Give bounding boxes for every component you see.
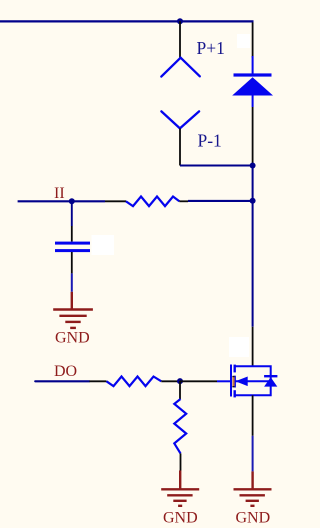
wire II to bus [188,200,253,202]
wire capacitor to ground [71,273,73,291]
connector symbol P+1 [161,58,200,77]
resistor R2 [107,377,162,387]
gate bar [230,365,232,397]
svg-text:P-1: P-1 [198,131,222,151]
capacitor C1 top lead [71,226,73,242]
wire DO left [35,380,89,382]
ground GND left [161,471,199,506]
junction dot top [177,18,183,24]
svg-text:DO: DO [54,363,77,380]
junction dot P-1 bus [250,163,256,169]
capacitor C1 bottom lead [71,252,73,273]
white patch above MOSFET [229,337,249,357]
resistor R3 bottom lead [180,453,182,470]
resistor R2 left lead [89,380,106,382]
body connection with arrow [235,380,271,382]
svg-text:GND: GND [163,510,198,527]
connector pin P-1 lead [179,128,181,165]
connector pin P+1 lead [179,21,181,57]
junction dot II bus [250,198,256,204]
wire MOSFET source down black [252,395,254,436]
channel top segment [233,365,235,373]
svg-text:GND: GND [55,329,90,346]
resistor R1 left lead [105,200,126,202]
junction dot II [69,198,75,204]
wire bus upper black segment [252,22,254,57]
wire gate [180,380,217,382]
wire II left [18,200,105,202]
wire bus navy segment [252,166,254,327]
ground GND right [234,471,272,505]
MOSFET Q1 [217,365,277,398]
resistor R3 top lead [179,381,181,399]
svg-text:GND: GND [236,510,271,527]
svg-text:II: II [54,185,65,202]
connector symbol P-1 [161,111,199,128]
resistor R1 [126,197,179,207]
junction dot DO [177,378,183,384]
capacitor C1 [55,242,90,253]
white patch right of capacitor [92,235,115,255]
resistor R3 [174,399,186,453]
channel bottom segment [233,390,235,397]
drain line [235,366,271,395]
wire II down to capacitor [71,201,73,226]
body diode bar [264,375,277,377]
wire bus black to MOSFET drain [252,327,254,367]
body diode triangle [264,377,277,386]
white patch near P+1 [237,34,250,48]
wire P-1 to bus [180,165,253,167]
gate pin [217,380,230,382]
channel middle segment [233,376,235,388]
wire source to ground navy [252,436,254,472]
wire top horizontal [0,20,254,22]
pin overlay orange [232,376,234,387]
resistor R2 right lead [161,380,180,382]
svg-text:P+1: P+1 [197,38,225,58]
wire bus below diode black [252,107,254,166]
resistor R1 right lead [179,200,188,202]
diode D1 [232,56,273,107]
ground GND capacitor [53,292,93,328]
